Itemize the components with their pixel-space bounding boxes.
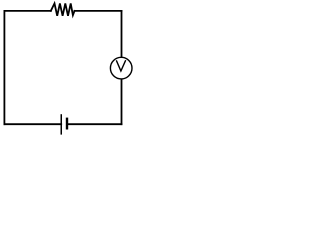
wire right lower (from voltmeter) [121, 79, 123, 124]
battery BT1 short thick plate [66, 118, 68, 130]
wire bottom-right segment (from battery) [67, 123, 122, 125]
voltmeter label V [116, 60, 125, 71]
wire bottom-left segment (to battery) [4, 123, 61, 125]
resistor R1 [51, 3, 75, 15]
wire top-right segment [75, 10, 122, 12]
wire left side [3, 11, 5, 124]
circuit schematic: series loop with resistor, voltmeter, battery [0, 0, 137, 148]
wire top-left segment [4, 10, 50, 12]
voltmeter U1 circle [110, 57, 132, 79]
wire right upper (to voltmeter) [121, 11, 123, 57]
battery BT1 long thin plate [60, 114, 62, 134]
